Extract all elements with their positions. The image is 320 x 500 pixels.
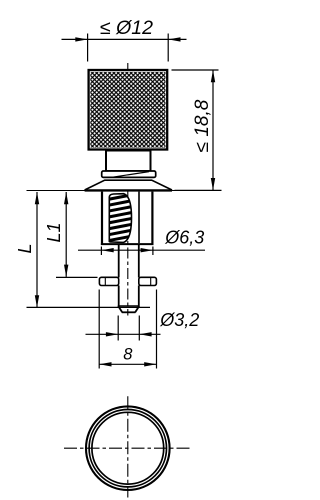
cross pin right lug	[139, 277, 157, 285]
outer circle	[86, 406, 170, 490]
dimension L	[27, 192, 151, 308]
stem below sleeve	[118, 244, 140, 312]
dimension 8	[99, 290, 156, 369]
svg-text:Ø3,2: Ø3,2	[159, 310, 199, 330]
svg-text:Ø6,3: Ø6,3	[164, 228, 204, 248]
svg-text:≤ 18,8: ≤ 18,8	[192, 99, 213, 152]
dimension Ø3,2	[86, 316, 161, 341]
centerline vertical (side view)	[127, 63, 129, 316]
flange bottom extension line	[27, 190, 222, 192]
dimension Ø6,3	[78, 247, 205, 256]
flange cone	[85, 180, 172, 190]
bottom view centerline horizontal	[64, 447, 193, 449]
spring	[109, 194, 131, 243]
inner circle	[92, 412, 164, 484]
ext line right	[167, 34, 169, 62]
dim line	[212, 70, 214, 190]
ext line top	[172, 69, 219, 71]
svg-text:≤ Ø12: ≤ Ø12	[100, 17, 153, 39]
svg-text:L1: L1	[44, 222, 64, 242]
knurled head	[89, 70, 168, 150]
neck	[106, 151, 151, 172]
arrow left	[75, 37, 87, 41]
svg-text:8: 8	[123, 345, 133, 363]
washer	[102, 171, 156, 177]
dimension ≤18,8	[172, 70, 222, 190]
stem edge inside sleeve	[138, 192, 140, 244]
middle circle	[89, 410, 166, 487]
sleeve	[101, 192, 103, 245]
arrow top	[211, 70, 215, 82]
arrow right	[168, 37, 180, 41]
flange bottom edge	[85, 189, 172, 191]
ext line left	[87, 34, 89, 62]
dimension ≤Ø12	[62, 34, 187, 62]
dimension L1	[56, 192, 98, 277]
arrow bottom	[211, 178, 215, 190]
cross pin left lug	[99, 277, 118, 285]
svg-text:L: L	[15, 243, 35, 253]
ext line bottom	[175, 189, 222, 191]
dim line	[62, 38, 187, 40]
tip chamfer	[118, 305, 140, 307]
spring coils	[107, 194, 134, 241]
bottom view centerline vertical	[127, 396, 129, 497]
washer diagonal	[113, 172, 150, 178]
